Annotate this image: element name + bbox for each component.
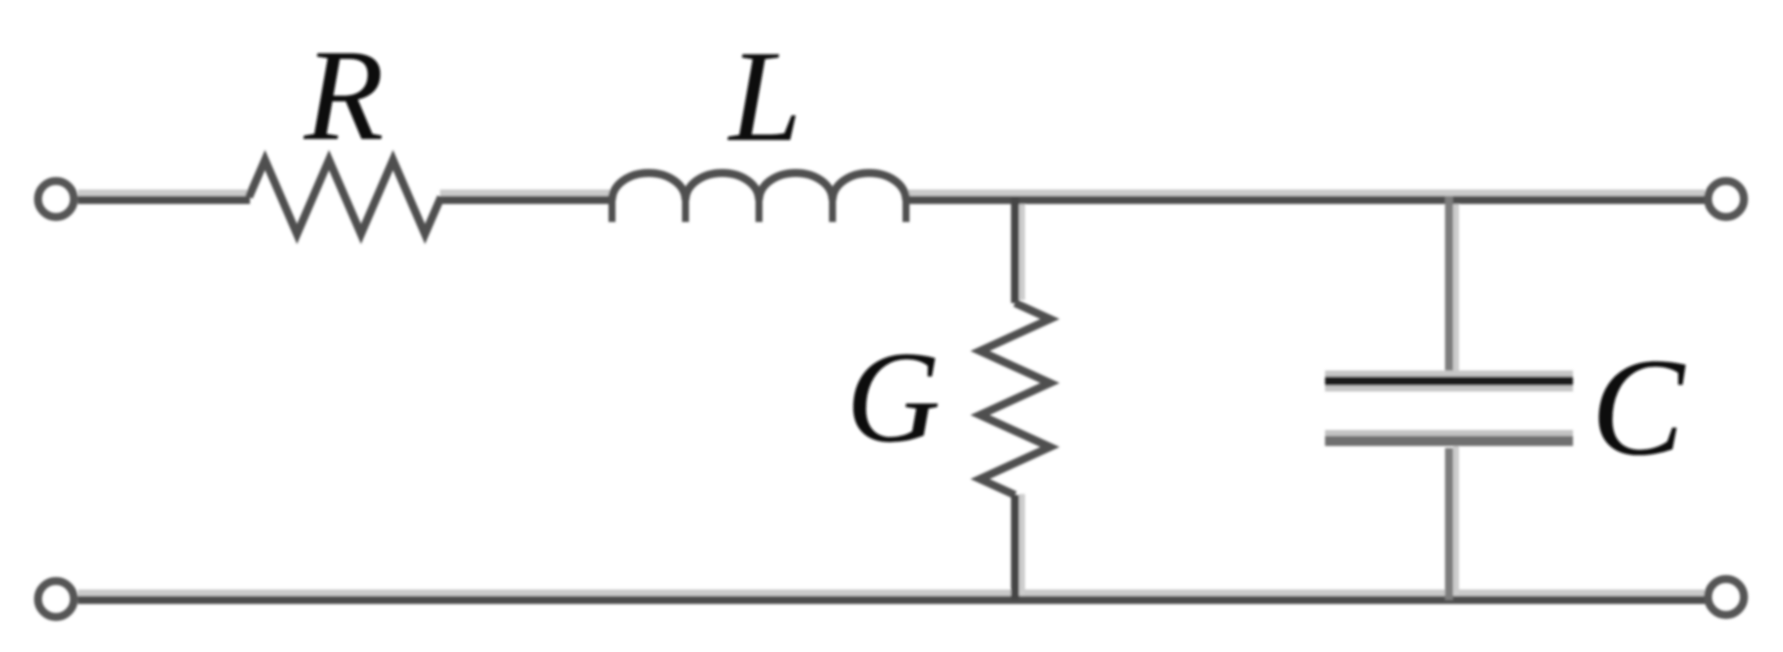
- terminal: top-right: [1708, 181, 1744, 217]
- svg-text:L: L: [727, 24, 802, 169]
- terminal: top-left: [38, 181, 74, 217]
- wire: top-left segment (input to R): [78, 196, 250, 204]
- wire: top-right segment (L to output, through nodes): [905, 196, 1705, 204]
- svg-text:G: G: [846, 325, 941, 470]
- wire: G branch upper: [1011, 196, 1019, 303]
- svg-text:C: C: [1591, 330, 1686, 485]
- svg-text:R: R: [303, 23, 384, 168]
- wire: top rail light halo segments: [78, 190, 1705, 197]
- wire: G branch lower: [1011, 495, 1019, 600]
- wire: C branch lower: [1445, 448, 1453, 600]
- resistor G: [980, 303, 1050, 495]
- wire: C branch upper: [1445, 196, 1453, 377]
- wire: bottom rail light halo: [78, 590, 1705, 597]
- wire: G branch light halo: [1019, 199, 1025, 597]
- wire: bottom rail: [78, 596, 1705, 604]
- wire: C branch light halo: [1453, 199, 1459, 597]
- wire: segment R to L: [440, 196, 613, 204]
- terminal: bottom-left: [38, 581, 74, 617]
- terminal: bottom-right: [1708, 579, 1744, 615]
- capacitor C bottom plate: [1325, 438, 1573, 441]
- resistor R: [249, 160, 441, 234]
- capacitor C top plate: [1325, 371, 1573, 392]
- inductor L: [612, 173, 906, 222]
